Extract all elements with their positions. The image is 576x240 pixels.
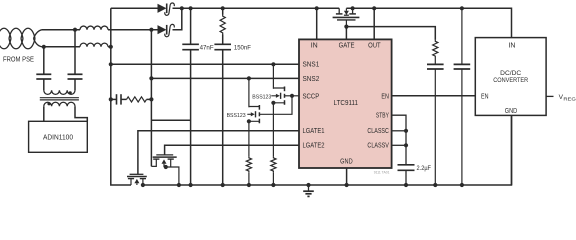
- label 150nF: [234, 44, 251, 51]
- node SNS1 tap on V1: [109, 62, 113, 66]
- svg-text:FROM PSE: FROM PSE: [3, 55, 34, 64]
- wire V2 vertical: [150, 30, 152, 167]
- wire SNS2 line: [151, 77, 299, 79]
- transistor Q3 BSS123: [247, 105, 260, 123]
- wire B to riser: [108, 46, 111, 48]
- transistor Q4 polarity MOSFET: [127, 174, 147, 185]
- wire Q2 source to R3: [272, 103, 274, 157]
- diode D1 with breaker squiggle: [158, 3, 175, 15]
- svg-text:LGATE2: LGATE2: [303, 143, 325, 150]
- node riser junction: [109, 45, 113, 49]
- node bus C8: [460, 183, 464, 187]
- svg-text:9111 TA01: 9111 TA01: [374, 171, 390, 175]
- wire D2 to rail riser: [173, 8, 182, 29]
- capacitor C3 47nF: [182, 44, 199, 49]
- svg-text:LTC9111: LTC9111: [334, 100, 359, 107]
- wire top rail left: [111, 7, 158, 9]
- wire pair line B: [42, 46, 80, 48]
- svg-text:SNS1: SNS1: [303, 62, 320, 69]
- wire secondary right: [75, 106, 87, 121]
- resistor R5 snubber: [127, 97, 147, 102]
- transistor Q1 pass MOSFET: [333, 8, 360, 26]
- capacitor C8: [454, 64, 471, 69]
- wire SNS1 line: [111, 63, 299, 65]
- label IN pin: [311, 42, 318, 49]
- block ADIN1100: [29, 121, 88, 152]
- node bus Q4: [141, 183, 145, 187]
- label FROM PSE: [3, 55, 34, 64]
- wire C1 upper lead: [43, 47, 45, 75]
- node CLASSV join: [404, 143, 408, 147]
- wire snubber right lead: [147, 98, 152, 100]
- wire gate to R4: [346, 27, 435, 40]
- svg-text:47nF: 47nF: [200, 44, 214, 51]
- node 47nF tap: [189, 6, 193, 10]
- svg-text:SNS2: SNS2: [303, 76, 320, 83]
- label 47nF: [200, 44, 214, 51]
- wire chip GND lead: [346, 168, 348, 185]
- resistor R3: [271, 157, 276, 173]
- wire R2 to bus: [248, 172, 250, 185]
- wire secondary left: [43, 106, 45, 121]
- block DC/DC converter: [475, 38, 546, 116]
- svg-text:BSS123: BSS123: [227, 113, 247, 119]
- wire EN line: [392, 95, 476, 97]
- wire pair line A: [42, 29, 80, 31]
- wire VREG stub: [546, 95, 553, 97]
- wire LGATE2 line: [165, 145, 299, 154]
- node cap C1 tap: [42, 45, 46, 49]
- wire Q2 drain riser: [272, 64, 274, 89]
- ground symbol: [303, 185, 314, 196]
- node bus R3: [271, 183, 275, 187]
- node bus chip GND: [345, 183, 349, 187]
- label SNS1 pin: [303, 62, 320, 69]
- wire C8 top lead: [461, 8, 463, 64]
- node bus Q5: [177, 183, 181, 187]
- wire 47nF lower vertical: [190, 50, 192, 185]
- capacitor C7: [427, 64, 444, 69]
- wire LGATE1 line: [138, 131, 299, 174]
- wire CLASSC stub: [392, 130, 406, 132]
- wire Q3 source to R2: [248, 121, 250, 156]
- node bus gndsym: [306, 183, 310, 187]
- wire snubber left lead: [111, 98, 117, 100]
- capacitor C2: [68, 74, 83, 79]
- svg-text:CLASSV: CLASSV: [367, 143, 389, 150]
- svg-text:EN: EN: [381, 93, 389, 100]
- node C8 tap: [460, 6, 464, 10]
- label BSS123 upper: [252, 94, 272, 100]
- label DCDC GND: [505, 108, 518, 115]
- svg-text:EN: EN: [481, 93, 489, 100]
- node bus 150nF: [221, 183, 225, 187]
- svg-text:LGATE1: LGATE1: [303, 128, 325, 135]
- svg-text:GND: GND: [340, 159, 353, 166]
- label OUT pin: [368, 42, 381, 49]
- wire R3 to bus: [272, 172, 274, 185]
- transistor Q5 polarity MOSFET: [151, 155, 176, 167]
- wire C1 lower lead: [43, 79, 45, 90]
- svg-text:STBY: STBY: [376, 113, 389, 120]
- node 150nF tap: [221, 6, 225, 10]
- note 9111 TA01: [374, 171, 390, 175]
- node bus C7: [433, 183, 437, 187]
- svg-text:OUT: OUT: [368, 42, 381, 49]
- wire ground bus: [143, 115, 512, 185]
- label DCDC EN: [481, 93, 489, 100]
- label LGATE1 pin: [303, 128, 325, 135]
- wire 150nF top lead: [222, 8, 224, 14]
- resistor R1: [220, 15, 225, 35]
- node pair A cap tap: [73, 28, 77, 32]
- label 2.2uF: [417, 165, 432, 172]
- svg-text:CLASSC: CLASSC: [367, 128, 389, 135]
- svg-text:REG: REG: [563, 97, 576, 103]
- wire top rail mid: [173, 7, 340, 9]
- node Q2 drain tap on SNS1: [271, 62, 275, 66]
- svg-text:GATE: GATE: [339, 42, 355, 49]
- node V2 top junction: [149, 28, 153, 32]
- svg-text:150nF: 150nF: [234, 44, 251, 51]
- label DCDC line1: [500, 70, 521, 77]
- node Q3 drain tap on SNS2: [247, 76, 251, 80]
- wire SCCP down to Q3 output: [259, 96, 292, 115]
- wire C6 to bus: [405, 170, 407, 185]
- label VREG: [559, 94, 576, 102]
- resistor R2: [246, 157, 251, 173]
- node bus 2.2uF: [404, 183, 408, 187]
- label GND pin: [340, 159, 353, 166]
- node D2 riser join: [180, 6, 184, 10]
- label STBY pin: [376, 113, 389, 120]
- node CLASSC join: [404, 129, 408, 133]
- wire C8 to bus: [461, 69, 463, 185]
- node bus 47nF: [189, 183, 193, 187]
- node Q1 right stub: [351, 6, 355, 10]
- node IN riser tap: [315, 6, 319, 10]
- wire link V2 to 47nF vertical: [151, 119, 190, 121]
- svg-text:IN: IN: [311, 42, 318, 49]
- node snubber right tap: [149, 97, 153, 101]
- wire snubber mid lead: [121, 98, 127, 100]
- svg-text:IN: IN: [508, 42, 515, 49]
- inductor L2: [80, 43, 108, 47]
- capacitor C4 150nF: [214, 44, 231, 49]
- svg-text:BSS123: BSS123: [252, 94, 272, 100]
- wire C2 upper lead: [74, 30, 76, 75]
- wire 47nF upper lead: [190, 8, 192, 44]
- label EN pin: [381, 93, 389, 100]
- wire Q3 drain riser: [248, 78, 250, 107]
- resistor R4: [433, 40, 438, 58]
- wire A to diode D2: [108, 29, 158, 31]
- node gate junction: [344, 25, 348, 29]
- label GATE pin: [339, 42, 355, 49]
- svg-text:ADIN1100: ADIN1100: [43, 135, 73, 142]
- ic LTC9111 body: [299, 39, 392, 168]
- wire V1 riser and left vertical: [111, 8, 131, 185]
- label DCDC line2: [493, 77, 528, 84]
- label DCDC IN: [508, 42, 515, 49]
- node snubber left tap: [109, 97, 113, 101]
- inductor L1: [80, 26, 108, 30]
- wire DCDC GND drop: [511, 115, 513, 185]
- node OUT riser tap: [372, 6, 376, 10]
- wire top rail right: [346, 8, 511, 37]
- svg-text:CONVERTER: CONVERTER: [493, 77, 528, 84]
- wire SCCP stub: [285, 95, 299, 97]
- label CLASSV pin: [367, 143, 389, 150]
- transformer T1: [40, 90, 79, 106]
- node bus R2: [247, 183, 251, 187]
- svg-text:DC/DC: DC/DC: [500, 70, 521, 77]
- svg-text:GND: GND: [505, 108, 518, 115]
- wire GATE vertical: [345, 27, 347, 40]
- wire C7 to bus: [434, 69, 436, 185]
- wire R1 to C4: [222, 35, 224, 45]
- label LGATE2 pin: [303, 143, 325, 150]
- svg-text:SCCP: SCCP: [303, 93, 320, 100]
- capacitor C1: [36, 74, 51, 79]
- wire 150nF lower vertical: [222, 50, 224, 185]
- node SCCP junction: [290, 94, 294, 98]
- capacitor C5 snubber: [117, 94, 122, 104]
- label CLASSC pin: [367, 128, 389, 135]
- wire IN riser: [316, 8, 318, 39]
- input twisted pair coil from PSE: [0, 28, 43, 49]
- capacitor C6 2.2uF: [398, 165, 415, 171]
- label SCCP pin: [303, 93, 320, 100]
- wire Q5 to bus: [164, 167, 179, 185]
- wire CLASSV stub: [392, 144, 406, 146]
- node Q5 source junction: [164, 165, 168, 169]
- label SNS2 pin: [303, 76, 320, 83]
- diode D2 with breaker squiggle: [158, 24, 175, 36]
- node SNS2 start: [149, 76, 153, 80]
- wire R4 to C7: [434, 58, 436, 65]
- svg-text:2.2µF: 2.2µF: [417, 165, 432, 172]
- label LTC9111: [334, 100, 359, 107]
- label BSS123 lower: [227, 113, 247, 119]
- transistor Q2 BSS123: [271, 87, 284, 105]
- wire OUT riser: [373, 8, 375, 39]
- wire STBY line: [392, 115, 406, 165]
- wire C2 lower lead: [74, 79, 76, 90]
